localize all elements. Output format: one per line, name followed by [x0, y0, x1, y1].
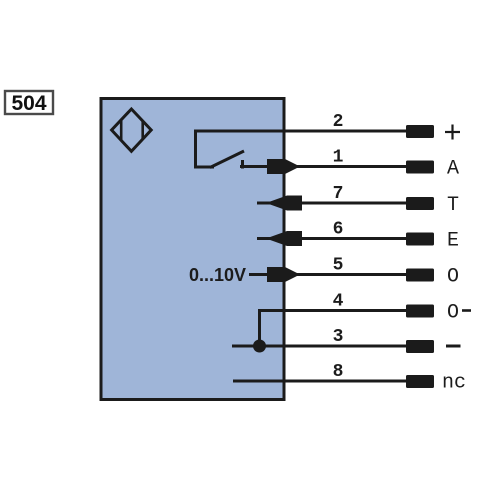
svg-text:3: 3 [333, 327, 344, 347]
terminal pin6 [406, 233, 434, 246]
svg-text:T: T [447, 194, 459, 217]
svg-text:A: A [447, 158, 459, 181]
wire pin3 [232, 345, 406, 348]
svg-text:7: 7 [333, 184, 344, 204]
label plus [445, 125, 460, 140]
svg-text:504: 504 [11, 92, 46, 115]
svg-text:O: O [447, 302, 459, 325]
terminal pin2 [406, 125, 434, 138]
svg-text:2: 2 [333, 112, 344, 132]
wire pin2 [194, 130, 406, 133]
wire pin5 [249, 273, 406, 276]
wire pin7 [257, 202, 406, 205]
svg-text:E: E [447, 230, 459, 253]
terminal pin1 [406, 161, 434, 174]
arrow pin6 [266, 231, 302, 246]
svg-text:4: 4 [333, 292, 344, 312]
svg-text:O: O [447, 266, 459, 289]
svg-text:8: 8 [333, 362, 344, 382]
figure label 504 [5, 91, 53, 115]
sensor body [101, 99, 284, 400]
wire pin1 [240, 165, 406, 168]
arrow pin7 [266, 196, 302, 211]
arrow pin1 [267, 159, 300, 174]
arrow pin5 [267, 267, 300, 282]
svg-text:5: 5 [333, 256, 344, 276]
svg-text:nc: nc [442, 372, 466, 395]
terminal pin3 [406, 340, 434, 353]
junction node [253, 340, 266, 353]
label O- [447, 302, 471, 325]
terminal pin5 [406, 269, 434, 282]
terminal pin7 [406, 197, 434, 210]
terminal pin4 [406, 305, 434, 318]
wire pin4 [260, 311, 407, 347]
proximity sensor symbol [112, 109, 152, 151]
wire pin6 [257, 237, 406, 240]
wire pin8 [233, 380, 406, 383]
switch S1 [194, 131, 244, 169]
svg-text:0...10V: 0...10V [189, 265, 246, 285]
svg-text:1: 1 [333, 148, 344, 168]
svg-text:6: 6 [333, 220, 344, 240]
terminal pin8 [406, 375, 434, 388]
label minus [446, 345, 461, 348]
